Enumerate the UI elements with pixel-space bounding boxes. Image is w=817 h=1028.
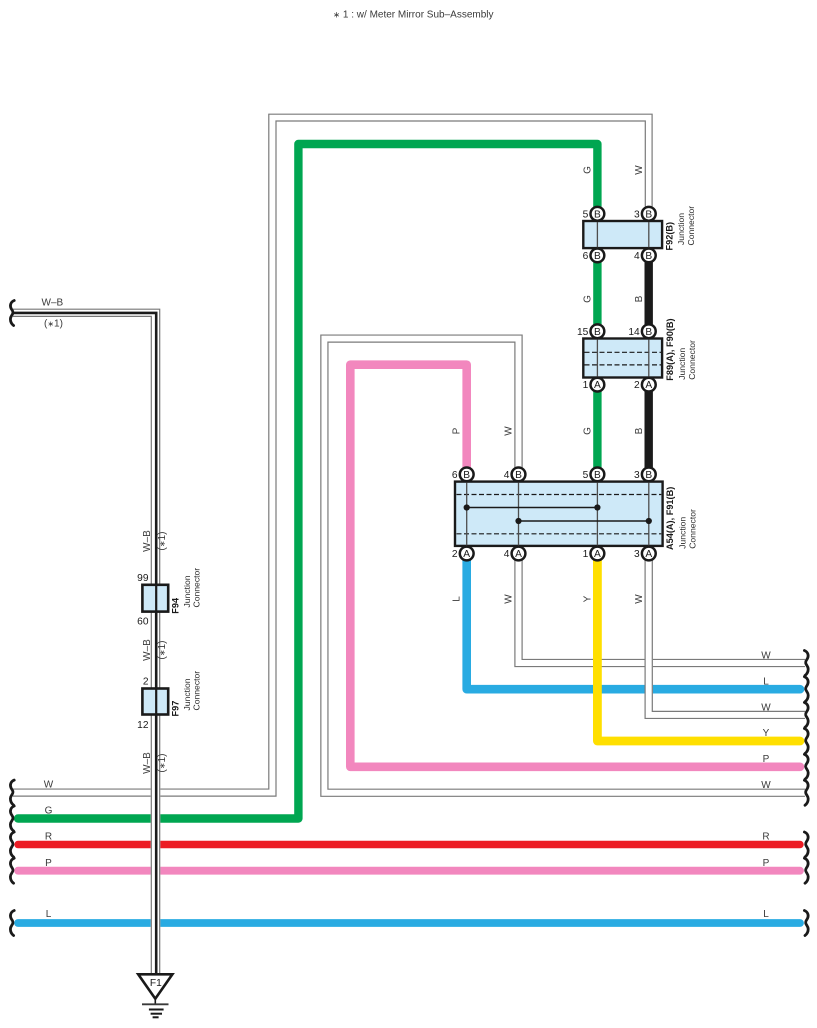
junction connector F97: [142, 689, 168, 715]
svg-text:P: P: [452, 427, 463, 434]
svg-text:5: 5: [583, 470, 589, 481]
svg-text:∗ 1 : w/ Meter Mirror Sub–Asse: ∗ 1 : w/ Meter Mirror Sub–Assembly: [333, 10, 494, 21]
break L left: [10, 911, 14, 936]
svg-text:G: G: [583, 295, 594, 303]
svg-text:F89(A), F90(B): F89(A), F90(B): [665, 318, 675, 380]
wire P loop: A54 pin 6(B) up over to right break: [350, 365, 800, 767]
svg-text:Y: Y: [763, 728, 770, 739]
wire G: F89 pin 1(A) to A54 pin 5(B): [593, 385, 601, 475]
svg-text:G: G: [45, 806, 53, 817]
pin 1 A of F89: [583, 378, 605, 392]
svg-text:Connector: Connector: [686, 206, 696, 246]
break Y right: [804, 729, 808, 754]
svg-text:12: 12: [137, 720, 149, 731]
svg-text:F92(B): F92(B): [665, 222, 675, 251]
svg-text:L: L: [46, 909, 52, 920]
svg-text:A: A: [594, 380, 601, 391]
label F89(A), F90(B) Junction Connector: [665, 318, 697, 380]
label W-B (*1) rotated pair 1: [142, 530, 168, 552]
svg-text:60: 60: [137, 617, 149, 628]
break L right: [804, 677, 808, 702]
svg-text:W–B: W–B: [42, 298, 64, 309]
svg-text:Junction: Junction: [676, 213, 686, 245]
label F97 Junction Connector: [171, 671, 202, 717]
svg-text:B: B: [515, 470, 522, 481]
wire P: left break to right break: [18, 867, 800, 875]
svg-text:L: L: [763, 909, 769, 920]
wire G loop: left break to F92 pin 5(B): [18, 144, 597, 819]
svg-text:Y: Y: [583, 595, 594, 602]
svg-text:A: A: [515, 549, 522, 560]
svg-text:W: W: [634, 594, 645, 604]
svg-text:A: A: [645, 380, 652, 391]
pin 3 B of F92: [634, 207, 656, 221]
label W-B (*1) rotated pair 2: [142, 639, 168, 661]
svg-text:(∗1): (∗1): [44, 319, 63, 330]
wire L: left break to right break: [18, 919, 800, 927]
label F94 Junction Connector: [171, 568, 202, 614]
svg-text:F97: F97: [171, 701, 181, 717]
svg-text:L: L: [763, 677, 769, 688]
break P right: [804, 858, 808, 883]
label W-B (*1) rotated pair 3: [142, 752, 168, 774]
pin 3 A of A54: [634, 547, 656, 561]
svg-text:W: W: [504, 594, 515, 604]
pin 2 A of A54: [452, 547, 474, 561]
svg-text:6: 6: [452, 470, 458, 481]
svg-text:B: B: [594, 209, 601, 220]
svg-text:F94: F94: [171, 597, 181, 614]
svg-text:A: A: [594, 549, 601, 560]
svg-text:Connector: Connector: [192, 568, 202, 608]
svg-text:3: 3: [634, 549, 640, 560]
svg-text:(∗1): (∗1): [157, 532, 168, 551]
svg-text:B: B: [645, 470, 652, 481]
svg-text:B: B: [634, 427, 645, 434]
svg-text:4: 4: [504, 549, 510, 560]
internal bus 6B-5B with junction dots: [464, 504, 601, 510]
pin 15 B of F89: [577, 324, 604, 338]
svg-text:G: G: [583, 427, 594, 435]
svg-text:W–B: W–B: [142, 530, 153, 552]
svg-text:A: A: [463, 549, 470, 560]
svg-text:P: P: [763, 754, 770, 765]
label F92(B) Junction Connector: [665, 206, 697, 251]
junction connector F89(A), F90(B): [583, 339, 662, 378]
svg-text:A54(A), F91(B): A54(A), F91(B): [665, 487, 675, 550]
svg-text:B: B: [594, 327, 601, 338]
svg-text:Junction: Junction: [677, 348, 687, 380]
svg-text:B: B: [645, 209, 652, 220]
pin 5 B of A54: [583, 468, 605, 482]
svg-text:2: 2: [143, 677, 149, 688]
svg-text:W: W: [504, 426, 515, 436]
break W right (loop): [804, 780, 808, 805]
svg-text:G: G: [583, 166, 594, 174]
svg-text:2: 2: [634, 380, 640, 391]
break P right (loop): [804, 754, 808, 779]
wire B: F92 pin 4(B) to F89 pin 14(B): [645, 255, 653, 331]
junction connector F92(B): [583, 221, 662, 248]
pin 4 A of A54: [504, 547, 526, 561]
svg-text:W–B: W–B: [142, 752, 153, 774]
pin 6 B of A54: [452, 468, 474, 482]
wire L: A54 pin 2(A) down right to right break: [467, 555, 800, 689]
svg-text:6: 6: [583, 251, 589, 262]
break R left: [10, 832, 14, 857]
svg-text:R: R: [45, 832, 52, 843]
svg-text:W: W: [761, 780, 771, 791]
wire W-B from left break to ground F1 (white wire with black stripe): [13, 309, 160, 974]
svg-text:(∗1): (∗1): [157, 754, 168, 773]
wire B: F89 pin 2(A) to A54 pin 3(B): [645, 385, 653, 475]
ground F1: [138, 974, 172, 1017]
svg-text:Connector: Connector: [687, 340, 697, 380]
svg-text:3: 3: [634, 470, 640, 481]
pin 1 A of A54: [583, 547, 605, 561]
wire W: A54 pin 4(A) down right to right break: [515, 555, 805, 667]
svg-text:B: B: [645, 251, 652, 262]
svg-text:B: B: [634, 295, 645, 302]
svg-text:14: 14: [628, 327, 640, 338]
break W right (from 4A): [804, 651, 808, 676]
svg-text:2: 2: [452, 549, 458, 560]
wire R: left break to right break: [18, 841, 800, 848]
svg-text:B: B: [463, 470, 470, 481]
svg-text:(∗1): (∗1): [157, 641, 168, 660]
svg-text:W: W: [44, 780, 54, 791]
wire W loop: A54 pin 4(B) up over down to right break: [321, 335, 805, 796]
svg-text:99: 99: [137, 573, 149, 584]
wire W outer loop: left break to F92 pin 3(B): [13, 114, 652, 796]
svg-text:1: 1: [583, 549, 589, 560]
pin 14 B of F89: [628, 324, 655, 338]
junction connector F94: [142, 585, 168, 612]
svg-text:P: P: [763, 858, 770, 869]
label A54(A), F91(B) Junction Connector: [665, 487, 698, 550]
pin 6 B of F92: [583, 249, 605, 263]
break W right (from 3A): [804, 702, 808, 727]
junction connector A54(A), F91(B): [455, 482, 663, 546]
svg-text:W: W: [761, 651, 771, 662]
svg-text:B: B: [594, 251, 601, 262]
svg-text:R: R: [762, 832, 769, 843]
svg-text:1: 1: [583, 380, 589, 391]
pin 3 B of A54: [634, 468, 656, 482]
break G left: [10, 806, 14, 831]
break L right: [804, 911, 808, 936]
break P left: [10, 858, 14, 883]
break R right: [804, 832, 808, 857]
pin 5 B of F92: [583, 207, 605, 221]
svg-text:4: 4: [634, 251, 640, 262]
svg-text:15: 15: [577, 327, 589, 338]
svg-text:Junction: Junction: [182, 678, 192, 710]
svg-text:P: P: [45, 858, 52, 869]
break W left: [10, 780, 14, 805]
wire Y: A54 pin 1(A) down right to right break: [597, 555, 800, 741]
svg-text:Connector: Connector: [688, 509, 698, 549]
svg-text:3: 3: [634, 209, 640, 220]
svg-text:Connector: Connector: [192, 671, 202, 711]
svg-text:B: B: [645, 327, 652, 338]
svg-text:W–B: W–B: [142, 639, 153, 661]
break W-B left: [10, 301, 14, 326]
pin 4 B of F92: [634, 249, 656, 263]
wire G: F92 pin 6(B) to F89 pin 15(B): [593, 255, 601, 331]
svg-text:4: 4: [504, 470, 510, 481]
internal bus 4B-3B with junction dots: [515, 518, 652, 524]
wire W: A54 pin 3(A) down right to right break: [645, 555, 805, 718]
svg-text:Junction: Junction: [182, 575, 192, 607]
svg-text:A: A: [645, 549, 652, 560]
svg-text:F1: F1: [150, 978, 162, 989]
svg-text:L: L: [452, 596, 463, 602]
pin 2 A of F89: [634, 378, 656, 392]
svg-text:W: W: [761, 703, 771, 714]
svg-text:5: 5: [583, 209, 589, 220]
svg-text:Junction: Junction: [678, 517, 688, 549]
svg-text:W: W: [634, 165, 645, 175]
pin 4 B of A54: [504, 468, 526, 482]
svg-text:B: B: [594, 470, 601, 481]
